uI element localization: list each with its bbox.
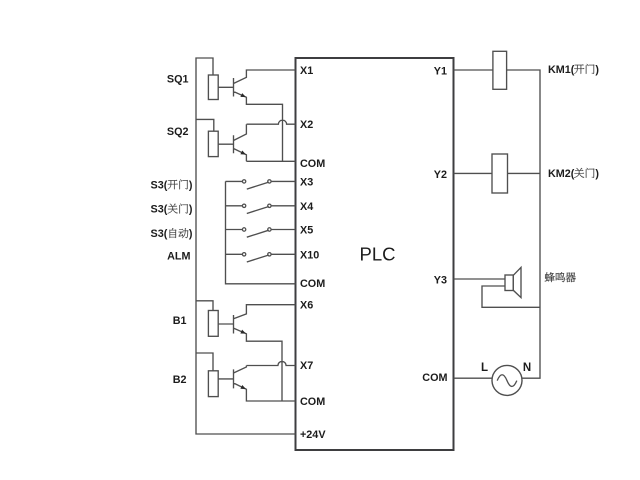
svg-text:SQ2: SQ2 [167, 126, 189, 138]
svg-text:PLC: PLC [360, 244, 396, 265]
svg-text:COM: COM [422, 372, 447, 384]
svg-text:X3: X3 [300, 176, 313, 188]
svg-text:X4: X4 [300, 201, 313, 213]
svg-text:COM: COM [300, 158, 325, 170]
svg-text:): ) [189, 180, 193, 192]
svg-text:X6: X6 [300, 300, 313, 312]
svg-text:X10: X10 [300, 249, 319, 261]
svg-text:B1: B1 [173, 315, 187, 327]
svg-text:X2: X2 [300, 119, 313, 131]
svg-text:): ) [189, 228, 193, 240]
svg-text:S3(: S3( [151, 180, 168, 192]
svg-text:B2: B2 [173, 374, 187, 386]
svg-text:S3(: S3( [151, 204, 168, 216]
svg-text:SQ1: SQ1 [167, 73, 189, 85]
svg-text:Y1: Y1 [434, 66, 447, 78]
svg-text:Y2: Y2 [434, 169, 447, 181]
svg-text:X1: X1 [300, 65, 313, 77]
svg-text:ALM: ALM [167, 251, 190, 263]
svg-text:N: N [523, 362, 531, 374]
svg-text:S3(: S3( [151, 228, 168, 240]
svg-text:X5: X5 [300, 225, 313, 237]
svg-text:): ) [189, 204, 193, 216]
svg-text:KM1(: KM1( [548, 64, 575, 76]
svg-text:Y3: Y3 [434, 275, 447, 287]
svg-text:X7: X7 [300, 360, 313, 372]
svg-text:): ) [595, 168, 599, 180]
svg-text:COM: COM [300, 278, 325, 290]
svg-text:L: L [481, 362, 488, 374]
svg-text:): ) [595, 64, 599, 76]
svg-text:COM: COM [300, 396, 325, 408]
svg-text:KM2(: KM2( [548, 168, 575, 180]
svg-text:+24V: +24V [300, 429, 326, 441]
